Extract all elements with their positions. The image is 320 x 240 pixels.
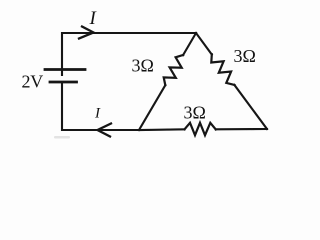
svg-text:I: I	[94, 106, 101, 122]
resistor R2 lower lead to bottom-right node	[234, 85, 267, 129]
label 3ohm resistor R1	[132, 56, 154, 76]
svg-text:2V: 2V	[22, 72, 44, 92]
wire bottom left segment (node to resistor R3)	[139, 128, 185, 131]
svg-text:3Ω: 3Ω	[184, 103, 206, 123]
current arrow bottom (I, pointing left)	[98, 124, 112, 137]
resistor R2 3ohm zigzag body	[211, 54, 234, 85]
resistor R1 lower lead to bottom-left node	[139, 85, 165, 130]
label I top current	[89, 8, 98, 29]
wire bottom right segment (resistor R3 to bottom-right node)	[216, 128, 267, 130]
current arrow top (I, pointing right)	[79, 27, 94, 39]
label 2V (battery value)	[22, 72, 44, 92]
battery B1 short plate (-)	[50, 81, 77, 84]
scan smudge artifact	[54, 136, 70, 139]
label 3ohm resistor R2	[234, 46, 256, 66]
resistor R3 3ohm zigzag body	[185, 123, 216, 135]
wire left lower (battery - down to bottom-left corner)	[62, 82, 139, 130]
label I bottom current	[94, 106, 101, 122]
svg-text:3Ω: 3Ω	[132, 56, 154, 76]
battery B1 long plate (+)	[45, 68, 85, 71]
resistor R1 3ohm left slant upper lead	[183, 33, 196, 55]
resistor R1 3ohm zigzag body	[164, 55, 183, 85]
wire top (battery + to apex node)	[62, 33, 196, 75]
label 3ohm resistor R3	[184, 103, 206, 123]
resistor R2 3ohm right slant upper lead	[196, 33, 212, 55]
svg-text:3Ω: 3Ω	[234, 46, 256, 66]
